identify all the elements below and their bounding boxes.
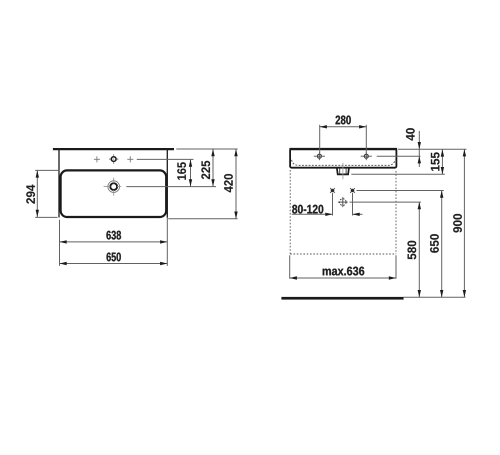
tap hole (center, bold circle with ticks) [109,154,118,163]
tap hole option cross right [127,156,133,162]
dimension 225 (top edge to drain) [201,149,214,187]
inner bowl hidden line (dashed) [292,160,395,166]
extension line: tap hole line to right dims [137,158,194,160]
outer rim rectangle right side [166,148,168,218]
drain (double circle with centerlines) [104,178,120,196]
tap hole option cross left [94,156,100,162]
drain outlet centerline [342,163,344,180]
extension line: bottom edge to right dims [168,218,237,220]
floor extension line [404,296,466,298]
dimension 638 (inner basin width) [60,231,168,244]
dimension 165 (tap line to drain) [177,160,192,187]
dashed installation box below basin [290,170,396,254]
dimension 294 (basin depth) [26,170,59,217]
wall fixing bolt right [350,188,355,193]
extension line: outlet bottom to 155 dim [351,173,445,175]
extension line: waste pipe to 580 dim [350,201,421,203]
dimension 650 (bolt height) [430,191,443,298]
basin body outline [290,149,396,168]
dimension 580 (waste pipe height) [407,202,421,297]
outer rim rectangle left side [58,148,60,218]
inner basin (thick rounded rectangle) [61,170,167,217]
dimension 420 (overall depth) [224,149,238,219]
floor line [281,297,403,300]
wall fixing bolt left [330,188,335,193]
waste pipe position (dashed circle with cross) [338,197,348,207]
tap hole right (front view) [361,152,372,160]
extension line: basin top to right dims [398,148,467,150]
dimension 155 (basin height) [431,149,444,174]
dimension 650 (overall width) [60,253,168,266]
tap hole left (front view) [314,152,325,160]
drain outlet below basin [337,168,349,174]
extension line: tap hole line to 40 dim [377,155,421,157]
dimension 280 (tap hole spacing) [320,116,367,154]
dimension 900 (rim height) [453,149,466,297]
extension line: bolts to 650 dim [357,190,444,192]
dimension max.636 (cabinet width) [290,255,396,279]
dimension 80-120 (waste pipe range) [292,193,363,216]
dimension 40 (tap deck) [406,128,421,167]
shared witness lines below basin [59,220,61,266]
extension line: top edge to right dims [176,148,237,150]
extension line: drain centerline to right dims [117,186,121,188]
washbasin back edge (thick top line) [53,148,174,150]
